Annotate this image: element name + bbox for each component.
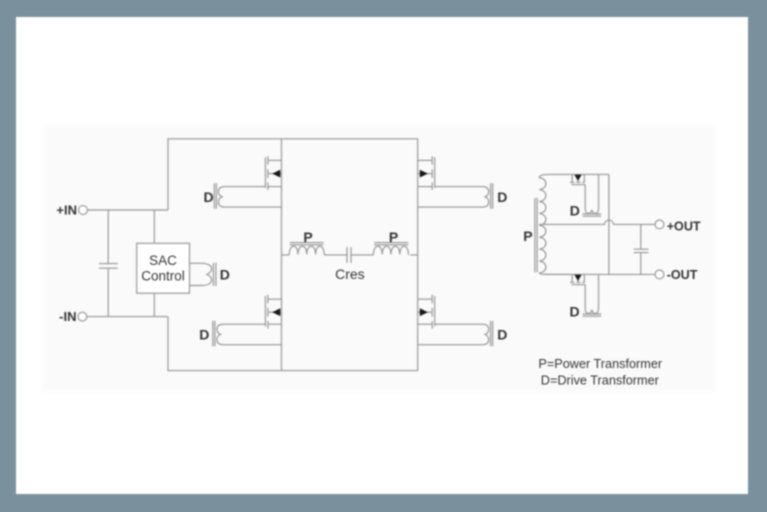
capacitor Cres plates — [347, 247, 351, 263]
capacitor input (leads) — [107, 210, 109, 317]
svg-text:Control: Control — [141, 268, 185, 283]
svg-text:+IN: +IN — [56, 203, 77, 218]
transistor Q3 upper-right MOSFET — [418, 156, 435, 190]
svg-text:Cres: Cres — [335, 266, 365, 282]
transformer D drive lower-left (winding+leads) — [217, 324, 282, 345]
transformer D drive upper-right (winding+leads) — [418, 187, 489, 208]
transformer SAC drive core — [213, 263, 216, 286]
transformer D drive lower-right (winding+leads) — [418, 324, 489, 345]
transformer P secondary core — [535, 198, 537, 272]
transformer SAC drive winding — [190, 263, 212, 285]
node -IN terminal — [78, 312, 87, 321]
wire left leg rail — [281, 139, 283, 371]
svg-text:+OUT: +OUT — [667, 219, 701, 233]
node -OUT terminal — [655, 270, 664, 279]
transistor top rectifier MOSFET — [570, 174, 585, 184]
transistor Q1 upper-left MOSFET — [265, 156, 281, 190]
svg-text:P: P — [303, 229, 312, 245]
transformer D bottom rectifier core — [583, 314, 602, 316]
svg-text:D: D — [570, 304, 580, 320]
inductor P left (winding) — [289, 246, 324, 255]
svg-text:-IN: -IN — [59, 309, 76, 324]
op-amp U1 SAC Control box — [137, 243, 190, 293]
transformer P secondary winding — [539, 174, 570, 274]
svg-text:P=Power Transformer: P=Power Transformer — [538, 357, 663, 371]
node +IN terminal — [79, 206, 88, 215]
svg-text:D=Drive Transformer: D=Drive Transformer — [541, 373, 660, 387]
inductor P right core — [374, 243, 408, 245]
inductor P right (winding) — [373, 246, 408, 255]
svg-text:D: D — [570, 203, 580, 219]
transistor Q2 lower-left MOSFET — [265, 295, 281, 329]
bridge outline rectangle — [168, 139, 418, 371]
wire SAC control to -IN rail — [153, 293, 155, 316]
wire secondary top to rail — [570, 173, 609, 175]
transformer D drive upper-left (winding+leads) — [218, 187, 281, 208]
svg-text:P: P — [389, 229, 398, 245]
wire resonant tank — [282, 254, 418, 256]
wire output rail (right vertical) — [608, 174, 610, 274]
svg-text:P: P — [523, 228, 532, 244]
capacitor output plates — [634, 249, 649, 252]
svg-text:D: D — [220, 266, 230, 282]
inductor P left core — [290, 243, 324, 245]
wire SAC control to +IN rail — [153, 210, 155, 243]
transformer D drive lower-left core — [213, 321, 215, 346]
capacitor input plates — [99, 264, 118, 269]
svg-text:-OUT: -OUT — [667, 268, 698, 282]
wire +IN to bridge — [87, 209, 168, 211]
svg-text:D: D — [204, 189, 214, 205]
svg-text:D: D — [199, 327, 209, 343]
capacitor output (leads) — [640, 224, 642, 274]
transformer D drive lower-right core — [491, 321, 493, 346]
node +OUT terminal — [655, 220, 664, 229]
wire secondary bottom to -OUT — [545, 273, 655, 275]
schematic backdrop — [42, 125, 715, 392]
transistor bottom rectifier MOSFET — [570, 274, 585, 284]
svg-text:D: D — [497, 327, 507, 343]
svg-text:D: D — [497, 189, 507, 205]
transistor Q4 lower-right MOSFET — [418, 295, 435, 329]
transformer D top rectifier core — [583, 214, 602, 216]
wire -IN to bridge — [87, 316, 168, 318]
transformer D drive upper-right core — [491, 183, 493, 208]
transformer D drive upper-left core — [214, 183, 216, 208]
wire center tap with hop over rail — [539, 220, 655, 224]
transformer D bottom rectifier (leads+winding) — [585, 274, 598, 313]
svg-text:SAC: SAC — [149, 253, 177, 268]
transformer D top rectifier (leads+winding) — [585, 174, 598, 213]
